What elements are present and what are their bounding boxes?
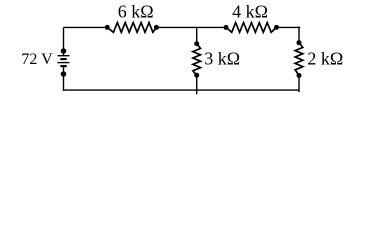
svg-text:72 V: 72 V bbox=[21, 51, 53, 68]
node dot 3k top bbox=[194, 41, 199, 46]
node dot 6k right bbox=[154, 25, 159, 30]
resistor R3 3 kOhm (vertical, middle) bbox=[193, 44, 201, 75]
node dot 4k left bbox=[224, 25, 229, 30]
wire top middle: 6k right dot to 4k left dot bbox=[157, 26, 227, 28]
wire bottom: full bottom rail bbox=[64, 89, 300, 91]
battery top terminal dot bbox=[61, 48, 67, 54]
node dot 2k top bbox=[297, 40, 302, 45]
svg-text:4 kΩ: 4 kΩ bbox=[232, 1, 268, 21]
wire right vertical: top-right corner down to 2k top dot bbox=[298, 27, 300, 43]
node dot 2k bottom bbox=[297, 73, 302, 78]
wire bottom-left: battery bottom dot down to bottom rail bbox=[63, 74, 65, 91]
wire stub: top rail down to 3k top dot bbox=[196, 27, 198, 43]
node dot 3k bottom bbox=[194, 73, 199, 78]
wire top: corner to 6k left dot bbox=[64, 26, 108, 28]
resistor R1 6 kOhm (horizontal, top left) bbox=[107, 23, 156, 33]
wire top right: 4k right dot to top-right corner bbox=[277, 26, 301, 28]
node dot 6k left bbox=[105, 25, 110, 30]
battery bottom terminal dot bbox=[61, 71, 67, 77]
svg-text:6 kΩ: 6 kΩ bbox=[118, 1, 154, 21]
wire top-left: left vertical from top-left corner down to battery bbox=[63, 27, 65, 51]
svg-text:2 kΩ: 2 kΩ bbox=[307, 48, 343, 68]
svg-text:3 kΩ: 3 kΩ bbox=[204, 49, 240, 69]
resistor R2 4 kOhm (horizontal, top right) bbox=[226, 23, 277, 33]
wire right-bottom: 2k bottom dot down to bottom rail bbox=[298, 76, 300, 93]
node dot 4k right bbox=[274, 25, 279, 30]
resistor R4 2 kOhm (vertical, right) bbox=[295, 43, 303, 76]
wire stub: 3k bottom dot down through bottom rail (overshoot) bbox=[196, 75, 198, 94]
battery V1 72 V plates bbox=[58, 51, 70, 74]
